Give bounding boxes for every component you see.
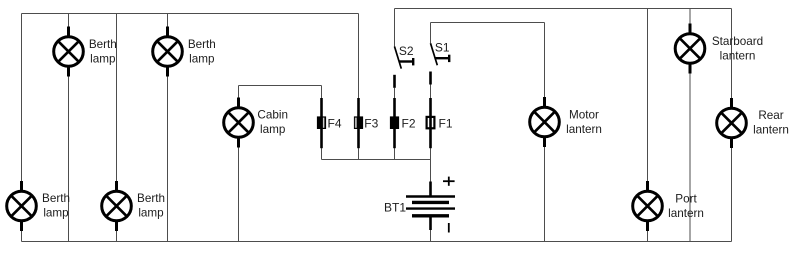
svg-text:lamp: lamp — [90, 52, 116, 65]
svg-text:lamp: lamp — [260, 123, 286, 136]
svg-text:Starboard: Starboard — [712, 35, 763, 48]
wire column port lantern — [647, 9, 649, 242]
svg-text:lantern: lantern — [566, 123, 602, 136]
wire column fuse F3 — [358, 14, 360, 160]
svg-text:lamp: lamp — [189, 52, 215, 65]
label starboard lantern — [712, 35, 763, 63]
fuse F1 — [427, 98, 435, 148]
wire column S2 F2 — [394, 9, 396, 47]
svg-text:lantern: lantern — [668, 207, 704, 220]
label berth lamp bottom 1 — [42, 192, 70, 220]
wire battery to bottom border — [430, 230, 432, 242]
svg-text:F4: F4 — [328, 116, 342, 130]
svg-text:lantern: lantern — [720, 49, 756, 62]
label berth lamp top 2 — [188, 38, 216, 66]
wire S1 to F1 link — [430, 85, 432, 183]
wire S1 to motor lantern — [431, 22, 545, 24]
fuse F4 — [317, 98, 326, 148]
svg-text:Port: Port — [675, 192, 697, 205]
svg-text:Berth: Berth — [188, 38, 216, 51]
lamp cabin — [224, 98, 254, 148]
svg-text:S1: S1 — [435, 41, 450, 55]
lamp motor lantern — [530, 97, 560, 147]
wire cabin lamp to F4 — [239, 85, 322, 87]
wire fuse output bus — [322, 159, 431, 161]
lamp port lantern — [633, 181, 663, 231]
svg-text:F1: F1 — [439, 116, 453, 130]
svg-text:F3: F3 — [364, 116, 378, 130]
wire column motor lantern — [544, 23, 546, 242]
svg-text:Rear: Rear — [758, 109, 783, 122]
lamp rear lantern — [717, 98, 747, 148]
wire top border — [22, 13, 359, 15]
svg-text:lamp: lamp — [138, 206, 164, 219]
svg-text:Berth: Berth — [89, 38, 117, 51]
wire left border — [21, 14, 23, 242]
svg-text:F2: F2 — [402, 116, 416, 130]
switch S2 — [395, 47, 414, 88]
svg-text:lantern: lantern — [753, 123, 789, 136]
battery minus mark — [448, 223, 450, 233]
svg-text:Berth: Berth — [137, 192, 165, 205]
lamp berth top 2 — [153, 27, 183, 77]
fuse F3 — [354, 98, 363, 148]
svg-text:BT1: BT1 — [384, 201, 406, 215]
svg-text:S2: S2 — [399, 44, 414, 58]
label port lantern — [668, 192, 704, 220]
label berth lamp bottom 2 — [137, 192, 165, 220]
wire column cabin lamp — [238, 86, 240, 242]
wire column berth lamp bottom 2 — [116, 14, 118, 242]
battery BT1 — [406, 182, 455, 231]
svg-text:lamp: lamp — [43, 206, 69, 219]
wire column starboard lantern — [689, 9, 691, 242]
wire column fuse F4 — [321, 86, 323, 160]
label rear lantern — [753, 109, 789, 137]
battery plus sign — [443, 177, 455, 186]
svg-text:Berth: Berth — [42, 192, 70, 205]
wire column rear lantern right border — [731, 9, 733, 242]
lamp berth top 1 — [54, 27, 84, 77]
label cabin lamp — [257, 108, 288, 136]
wire column berth lamp top 2 — [167, 14, 169, 242]
fuse F2 — [390, 98, 399, 148]
label motor lantern — [566, 108, 602, 136]
wire top right bus — [395, 8, 732, 10]
lamp berth bottom 1 — [7, 181, 37, 231]
wire column berth lamp top 1 — [68, 14, 70, 242]
svg-text:Cabin: Cabin — [257, 108, 288, 121]
wire column S1 F1 battery — [430, 23, 432, 44]
label berth lamp top 1 — [89, 38, 117, 66]
wire bottom border — [22, 241, 732, 243]
lamp berth bottom 2 — [102, 181, 132, 231]
wire S2 to F2 link — [394, 88, 396, 160]
svg-text:Motor: Motor — [569, 108, 599, 121]
switch S1 — [431, 43, 450, 84]
lamp starboard lantern — [675, 24, 705, 74]
